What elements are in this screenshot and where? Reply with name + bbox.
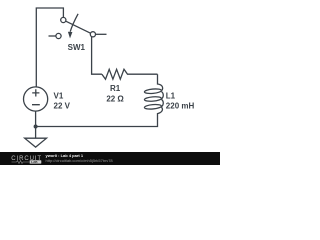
- svg-text:22 V: 22 V: [54, 101, 71, 110]
- svg-text:LAB: LAB: [31, 160, 38, 164]
- svg-text:SW1: SW1: [68, 43, 86, 52]
- svg-text:V1: V1: [54, 91, 64, 100]
- svg-text:http://circuitlab.com/c/mh5j5r: http://circuitlab.com/c/mh5j5rk57tnv78: [46, 158, 114, 163]
- svg-text:22 Ω: 22 Ω: [106, 94, 124, 103]
- svg-text:R1: R1: [110, 84, 121, 93]
- svg-text:L1: L1: [166, 91, 176, 100]
- svg-text:220 mH: 220 mH: [166, 102, 195, 111]
